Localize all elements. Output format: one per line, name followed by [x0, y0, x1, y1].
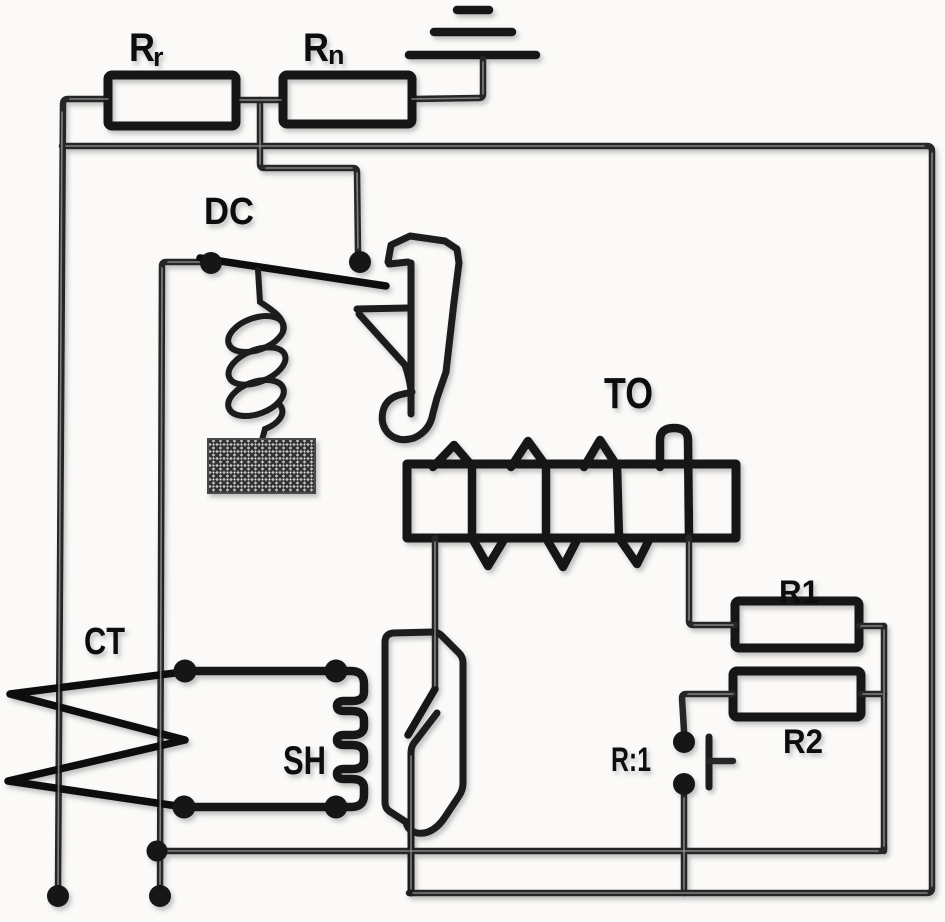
svg-text:SH: SH [283, 739, 326, 783]
svg-text:R: R [129, 26, 155, 70]
svg-text:R: R [303, 26, 329, 70]
svg-text:TO: TO [604, 369, 653, 418]
svg-text:CT: CT [84, 621, 125, 663]
svg-text:n: n [328, 40, 345, 70]
svg-text:R1: R1 [779, 574, 819, 610]
svg-text:R2: R2 [783, 723, 823, 761]
svg-text:r: r [153, 42, 164, 72]
svg-text:DC: DC [204, 191, 254, 233]
svg-text:R:1: R:1 [611, 741, 651, 779]
